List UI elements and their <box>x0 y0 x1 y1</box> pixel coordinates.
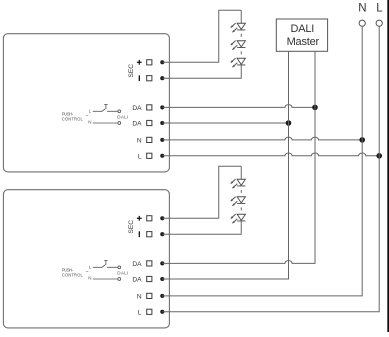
label + (driver 1) <box>137 60 142 65</box>
LED 2 of module 1 <box>231 41 246 50</box>
wire DA1 driver 1 to DALI bus DA+ <box>162 105 315 108</box>
terminal dot SEC+ driver 1 <box>160 60 164 64</box>
terminal square DA2 driver 1 <box>147 120 152 125</box>
junction dot DA1/DALI+ <box>312 105 318 111</box>
wire N of push control (driver 1) <box>93 122 118 124</box>
terminal dot N driver 2 <box>160 294 164 298</box>
terminal square N driver 1 <box>147 137 152 142</box>
label + (driver 2) <box>137 216 142 221</box>
dashed wire LED2-LED3 module 2 <box>240 207 242 210</box>
wire LED module 2 anode feed <box>240 166 242 179</box>
mains terminal L (circle) <box>376 20 382 26</box>
terminal square SEC+ driver 2 <box>147 216 152 221</box>
LED 1 of module 2 <box>231 179 246 188</box>
svg-text:DA: DA <box>132 261 142 268</box>
svg-text:N: N <box>88 276 91 281</box>
svg-text:CONTROL: CONTROL <box>62 116 84 121</box>
dashed wire LED2-LED3 module 1 <box>240 51 242 54</box>
terminal square SEC- driver 1 <box>147 76 152 81</box>
dashed wire LED1-LED2 module 1 <box>240 34 242 37</box>
wire LED module 1 cathode return to SEC- of driver 1 <box>162 65 241 78</box>
wire DALI bus DA+ (DALI Master right leg to DA1 driver 2) <box>162 51 315 263</box>
contact circle L (driver 2) <box>118 266 121 269</box>
svg-text:L: L <box>89 108 92 113</box>
wire DA2 driver 1 to DALI bus DA- <box>162 122 288 124</box>
terminal dot SEC+ driver 2 <box>160 216 164 220</box>
push-button switch contact (driver 2) <box>93 266 102 268</box>
svg-text:DA: DA <box>132 121 142 128</box>
terminal square L driver 1 <box>147 153 152 158</box>
junction dot DA2/DALI- <box>286 120 292 126</box>
svg-text:N: N <box>88 120 91 125</box>
svg-text:L: L <box>138 309 142 316</box>
junction dot N driver1/N bus <box>359 137 365 143</box>
terminal square SEC- driver 2 <box>147 232 152 237</box>
terminal dot DA1 driver 1 <box>160 105 164 109</box>
wire N bus (mains N to N driver 2) <box>162 26 362 296</box>
svg-text:DA: DA <box>132 105 142 112</box>
terminal square DA1 driver 2 <box>147 261 152 266</box>
wire LED module 2 cathode return to SEC- of driver 2 <box>162 221 241 234</box>
LED driver unit 1 enclosure <box>3 34 169 172</box>
terminal square SEC+ driver 1 <box>147 60 152 65</box>
terminal square DA2 driver 2 <box>147 276 152 281</box>
terminal dot DA2 driver 2 <box>160 277 164 281</box>
svg-text:SEC: SEC <box>128 64 135 78</box>
push-button switch contact (driver 1) <box>93 110 102 112</box>
terminal dot L driver 2 <box>160 310 164 314</box>
svg-text:N: N <box>358 3 366 15</box>
contact circle L (driver 1) <box>118 110 121 113</box>
wire L bus (mains L to L driver 2) <box>162 26 379 312</box>
terminal dot N driver 1 <box>160 138 164 142</box>
label - (driver 1) <box>139 75 140 81</box>
LED 1 of module 1 <box>231 23 246 32</box>
terminal dot SEC- driver 1 <box>160 76 164 80</box>
svg-text:N: N <box>137 138 142 145</box>
wire L driver 1 to L bus <box>162 153 379 156</box>
wire DALI bus DA- (DALI Master left leg to DA2 driver 2) <box>162 51 288 279</box>
push-button control legend (driver 1) <box>62 108 128 124</box>
svg-text:L: L <box>376 3 383 15</box>
label - (driver 2) <box>139 231 140 237</box>
dashed wire LED1-LED2 module 2 <box>240 190 242 193</box>
LED 3 of module 2 <box>231 214 246 223</box>
wire LED module 1 anode feed <box>240 10 242 23</box>
terminal square DA1 driver 1 <box>147 105 152 110</box>
terminal dot DA2 driver 1 <box>160 121 164 125</box>
terminal dot SEC- driver 2 <box>160 232 164 236</box>
svg-text:DA: DA <box>132 277 142 284</box>
wire N driver 1 to N bus <box>162 137 362 140</box>
svg-text:CONTROL: CONTROL <box>62 272 84 277</box>
LED 3 of module 1 <box>231 58 246 67</box>
svg-text:N: N <box>137 294 142 301</box>
svg-text:Master: Master <box>287 36 320 48</box>
junction dot L driver1/L bus <box>376 153 382 159</box>
LED driver unit 2 enclosure <box>3 190 169 328</box>
svg-text:DALI: DALI <box>117 271 128 276</box>
svg-text:DALI: DALI <box>117 115 128 120</box>
wire SEC+ of driver 1 to LED module 1 <box>162 10 241 62</box>
svg-text:SEC: SEC <box>128 220 135 234</box>
mains terminal N (circle) <box>359 20 365 26</box>
wire SEC+ of driver 2 to LED module 2 <box>162 166 241 218</box>
push-button control legend (driver 2) <box>62 264 128 280</box>
terminal square L driver 2 <box>147 309 152 314</box>
contact circle N (driver 1) <box>118 122 121 125</box>
svg-text:L: L <box>138 153 142 160</box>
terminal dot L driver 1 <box>160 154 164 158</box>
wire N of push control (driver 2) <box>93 278 118 280</box>
svg-text:DALI: DALI <box>290 23 314 35</box>
LED 2 of module 2 <box>231 197 246 206</box>
DALI Master unit <box>276 19 327 51</box>
page edge rule (right border line) <box>387 0 389 332</box>
terminal square N driver 2 <box>147 293 152 298</box>
contact circle N (driver 2) <box>118 278 121 281</box>
svg-text:L: L <box>89 264 92 269</box>
terminal dot DA1 driver 2 <box>160 261 164 265</box>
